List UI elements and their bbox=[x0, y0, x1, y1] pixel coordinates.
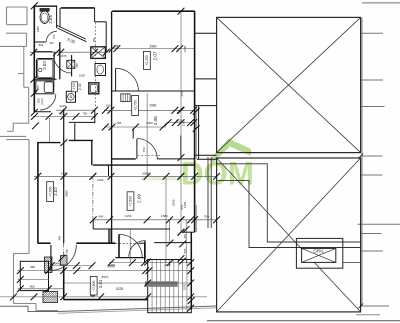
svg-text:860: 860 bbox=[30, 285, 35, 289]
svg-text:1490: 1490 bbox=[97, 178, 104, 182]
svg-text:860: 860 bbox=[30, 265, 35, 269]
svg-text:2.02: 2.02 bbox=[53, 187, 58, 196]
svg-text:2450: 2450 bbox=[108, 264, 115, 268]
svg-text:1485: 1485 bbox=[36, 26, 40, 33]
svg-text:+7,600: +7,600 bbox=[92, 281, 96, 291]
svg-text:400: 400 bbox=[98, 214, 103, 218]
svg-text:750: 750 bbox=[142, 147, 146, 152]
svg-text:820: 820 bbox=[59, 112, 64, 116]
svg-text:1480: 1480 bbox=[61, 172, 68, 176]
svg-text:700: 700 bbox=[52, 34, 56, 39]
svg-text:505: 505 bbox=[180, 91, 184, 96]
svg-text:GRIL: GRIL bbox=[313, 249, 324, 254]
svg-text:+2,750: +2,750 bbox=[133, 100, 137, 110]
svg-text:190: 190 bbox=[114, 44, 120, 48]
svg-text:5225: 5225 bbox=[116, 287, 123, 291]
svg-text:3060: 3060 bbox=[142, 172, 149, 176]
svg-text:8670: 8670 bbox=[102, 275, 109, 279]
svg-text:750: 750 bbox=[65, 249, 69, 254]
svg-text:700: 700 bbox=[82, 112, 87, 116]
svg-text:3650: 3650 bbox=[64, 190, 68, 197]
svg-text:2385: 2385 bbox=[182, 120, 186, 127]
svg-text:1000: 1000 bbox=[146, 121, 153, 125]
svg-text:2.04: 2.04 bbox=[48, 15, 53, 24]
svg-text:+7,600: +7,600 bbox=[129, 196, 133, 206]
svg-text:2.09: 2.09 bbox=[137, 194, 142, 203]
svg-text:1140: 1140 bbox=[164, 263, 171, 267]
svg-text:2.03: 2.03 bbox=[42, 61, 47, 70]
svg-text:2.08: 2.08 bbox=[153, 116, 158, 125]
svg-text:250: 250 bbox=[75, 63, 79, 68]
svg-text:1650: 1650 bbox=[79, 74, 85, 78]
svg-text:+2,250: +2,250 bbox=[145, 55, 149, 65]
svg-text:470: 470 bbox=[183, 234, 187, 239]
svg-text:595: 595 bbox=[183, 248, 187, 253]
svg-text:1570: 1570 bbox=[182, 283, 186, 290]
svg-text:+7,600: +7,600 bbox=[48, 186, 52, 196]
svg-text:2360: 2360 bbox=[183, 45, 187, 52]
svg-text:900: 900 bbox=[50, 42, 55, 45]
svg-text:2830: 2830 bbox=[171, 199, 175, 206]
svg-text:1689: 1689 bbox=[161, 214, 168, 218]
svg-text:800: 800 bbox=[39, 43, 44, 47]
svg-text:2220: 2220 bbox=[59, 104, 66, 108]
svg-text:2.05: 2.05 bbox=[78, 83, 82, 90]
svg-text:2980: 2980 bbox=[149, 103, 156, 107]
svg-text:1440: 1440 bbox=[54, 261, 61, 265]
svg-text:+7,420: +7,420 bbox=[73, 82, 76, 90]
svg-text:190: 190 bbox=[105, 103, 110, 107]
svg-text:2.07: 2.07 bbox=[153, 51, 158, 60]
svg-text:485: 485 bbox=[58, 235, 62, 240]
svg-text:970: 970 bbox=[180, 204, 184, 209]
svg-text:1675: 1675 bbox=[60, 54, 67, 58]
svg-text:(1970): (1970) bbox=[42, 98, 44, 105]
svg-text:150: 150 bbox=[92, 37, 96, 42]
svg-text:900: 900 bbox=[37, 98, 41, 103]
svg-text:900: 900 bbox=[36, 85, 40, 90]
svg-text:2.01: 2.01 bbox=[98, 279, 103, 288]
svg-text:765: 765 bbox=[116, 121, 121, 125]
svg-text:700: 700 bbox=[204, 214, 209, 218]
svg-text:2980: 2980 bbox=[149, 44, 156, 48]
svg-text:1150: 1150 bbox=[125, 214, 132, 218]
